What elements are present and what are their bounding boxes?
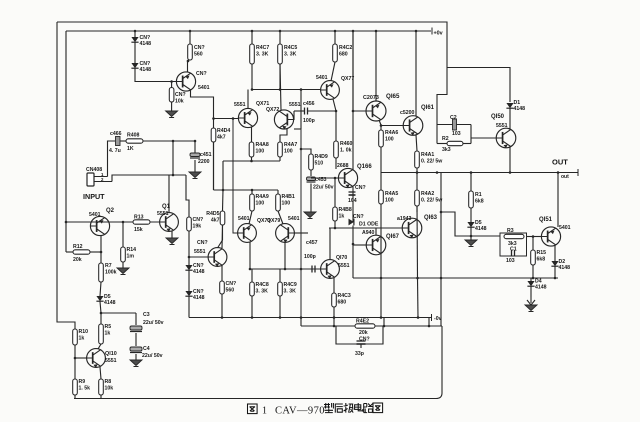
wire	[310, 184, 312, 213]
wire stub	[383, 318, 385, 327]
wire	[279, 64, 281, 90]
svg-text:100k: 100k	[105, 269, 117, 275]
wire	[333, 278, 335, 293]
svg-text:1k: 1k	[339, 213, 345, 219]
node	[251, 88, 254, 91]
wire	[188, 271, 190, 292]
resistor R14 1m	[121, 247, 136, 262]
node	[170, 80, 173, 83]
ground	[166, 111, 178, 118]
svg-text:CAV—970: CAV—970	[275, 406, 325, 417]
node	[440, 277, 443, 280]
svg-text:QX79: QX79	[267, 218, 280, 224]
wire QX71 base	[214, 118, 239, 120]
wire	[380, 278, 382, 318]
wire QX79 base stub	[295, 232, 309, 234]
capacitor 104	[349, 192, 356, 195]
node	[251, 316, 254, 319]
ground	[304, 212, 316, 219]
svg-text:3. 3K: 3. 3K	[256, 51, 269, 57]
resistor R4D4 4k7	[211, 128, 230, 142]
capacitor C4 22u/50v	[130, 347, 142, 353]
svg-text:-0v: -0v	[434, 316, 442, 322]
wire	[380, 147, 382, 173]
svg-text:103: 103	[506, 258, 515, 264]
transistor QI10 5551	[87, 349, 117, 368]
wire	[194, 160, 196, 172]
wire	[331, 62, 335, 81]
svg-text:+0v: +0v	[434, 31, 443, 37]
node	[383, 325, 386, 328]
resistor R8 10k	[99, 379, 114, 395]
resistor CN? 560	[220, 281, 236, 294]
node	[189, 30, 192, 33]
wire	[310, 170, 312, 176]
node	[333, 316, 336, 319]
wire	[251, 157, 253, 161]
wire	[66, 251, 73, 253]
wire R4D9 tap	[301, 149, 311, 154]
svg-text:100: 100	[284, 148, 293, 154]
diode CN? 4148 (2)	[131, 61, 151, 73]
svg-text:R4C2: R4C2	[339, 45, 352, 51]
svg-text:1k: 1k	[79, 335, 85, 341]
svg-text:A940: A940	[362, 230, 375, 236]
wire	[294, 128, 301, 130]
wire Q163 base bus	[329, 227, 403, 229]
node	[74, 357, 77, 360]
node	[279, 316, 282, 319]
node	[416, 277, 419, 280]
svg-text:QI70: QI70	[336, 255, 347, 261]
wire	[74, 395, 76, 399]
svg-text:5401: 5401	[288, 216, 300, 222]
svg-text:100p: 100p	[303, 118, 315, 124]
svg-text:10k: 10k	[105, 385, 114, 391]
svg-text:C2: C2	[450, 115, 457, 121]
wire	[251, 31, 253, 44]
wire	[379, 120, 381, 125]
wire	[100, 313, 102, 324]
wire	[221, 225, 224, 248]
svg-text:22u/ 50v: 22u/ 50v	[143, 320, 164, 326]
node	[300, 148, 303, 151]
svg-text:Q2: Q2	[106, 208, 115, 214]
svg-text:QI50: QI50	[491, 114, 505, 120]
node	[222, 189, 225, 192]
svg-text:QX77: QX77	[341, 76, 354, 82]
svg-text:100: 100	[385, 197, 394, 203]
wire	[470, 228, 472, 241]
svg-text:5401: 5401	[559, 225, 571, 231]
wire	[221, 266, 223, 282]
wire	[279, 31, 281, 44]
wire	[222, 161, 224, 190]
wire Q167 base	[353, 244, 367, 246]
wire Q1 collector	[168, 175, 170, 213]
svg-text:CN?: CN?	[353, 214, 364, 220]
node	[122, 221, 125, 224]
node	[416, 171, 419, 174]
svg-text:4148: 4148	[514, 106, 526, 112]
wire	[352, 187, 354, 222]
capacitor c451 2200	[190, 153, 200, 158]
node	[436, 171, 439, 174]
svg-text:c457: c457	[306, 240, 318, 246]
svg-text:D5: D5	[475, 220, 482, 226]
svg-text:R4A8: R4A8	[256, 142, 269, 148]
svg-text:R4D9: R4D9	[315, 154, 328, 160]
node	[300, 88, 303, 91]
svg-text:QI10: QI10	[105, 351, 117, 357]
svg-text:103: 103	[452, 131, 461, 137]
wire emitter bus y269	[250, 268, 321, 270]
diode CN? 4148 (4)	[185, 289, 204, 301]
svg-text:10k: 10k	[175, 98, 184, 104]
transistor QI51 5401	[539, 217, 571, 246]
capacitor C1 103	[512, 250, 515, 256]
svg-text:CN408: CN408	[86, 167, 102, 173]
svg-text:4k7: 4k7	[217, 134, 226, 140]
resistor R4D5 4k7	[206, 211, 225, 225]
node	[65, 221, 68, 224]
wire input to c466	[108, 141, 116, 177]
diode D5 4148	[467, 220, 486, 232]
wire	[530, 287, 532, 298]
wire mid bus y190	[214, 189, 279, 191]
wire	[171, 102, 173, 111]
transistor QX73 5401	[238, 216, 271, 242]
node	[251, 30, 254, 33]
wire	[221, 294, 223, 318]
wire	[360, 344, 362, 348]
ground arrow D4	[527, 297, 535, 305]
wire R3 node	[462, 235, 500, 237]
svg-text:OUT: OUT	[552, 158, 568, 167]
wire	[294, 110, 304, 112]
wire to c456	[300, 90, 302, 112]
svg-text:4148: 4148	[559, 265, 571, 271]
wire C2 branch	[437, 124, 471, 126]
svg-text:R4A2: R4A2	[421, 191, 434, 197]
svg-text:510: 510	[315, 160, 324, 166]
svg-text:4k7: 4k7	[211, 217, 220, 223]
svg-text:4148: 4148	[140, 41, 152, 47]
wire Q2 base bus	[66, 221, 160, 223]
wire stub	[333, 318, 335, 327]
svg-text:5401: 5401	[198, 85, 210, 91]
wire	[416, 135, 417, 151]
wire	[509, 109, 511, 129]
node	[100, 312, 103, 315]
wire	[188, 297, 190, 318]
wire Q165 base feed	[353, 31, 366, 111]
svg-text:CN?: CN?	[193, 289, 204, 295]
caption 图1 CAV-970 型后级电路图	[248, 404, 258, 414]
transistor Q1 5551	[157, 204, 178, 232]
svg-text:Q166: Q166	[357, 164, 372, 170]
node	[100, 251, 103, 254]
wire	[279, 296, 281, 318]
svg-text:100: 100	[282, 200, 291, 206]
wire	[189, 31, 191, 44]
wire	[375, 228, 377, 235]
node	[172, 140, 175, 143]
wire Q150 emitter to OUT	[509, 148, 511, 173]
node	[532, 277, 535, 280]
svg-text:22u/ 50v: 22u/ 50v	[313, 185, 334, 191]
resistor R4C7 3.3K	[250, 44, 270, 64]
transistor QI50 5551	[491, 114, 516, 148]
wire	[416, 168, 418, 173]
wire	[251, 269, 253, 282]
wire	[143, 140, 195, 142]
svg-text:R4A5: R4A5	[385, 191, 398, 197]
capacitor c453 22u/50v	[307, 177, 316, 182]
svg-text:5551: 5551	[194, 249, 206, 255]
svg-text:20k: 20k	[359, 330, 368, 336]
wire	[100, 282, 101, 296]
wire QX77 emitter	[333, 99, 336, 111]
svg-text:R4A9: R4A9	[256, 194, 269, 200]
wire	[172, 141, 174, 175]
svg-text:c466: c466	[110, 131, 122, 137]
wire diode chain to Q base	[135, 69, 176, 82]
wire	[300, 318, 302, 327]
transistor Q166 2688	[337, 163, 372, 188]
svg-text:1: 1	[262, 406, 267, 417]
wire	[470, 208, 472, 222]
node	[279, 30, 282, 33]
svg-text:5401: 5401	[316, 75, 328, 81]
node	[334, 30, 337, 33]
wire	[301, 268, 321, 270]
wire OUT rail	[381, 172, 578, 174]
transistor QX72 5551	[266, 102, 301, 130]
wire	[334, 221, 336, 228]
wire feedback loop box	[336, 326, 383, 344]
wire	[122, 222, 124, 247]
wire	[284, 242, 286, 269]
svg-text:D2: D2	[559, 259, 566, 265]
diode D2 4148	[551, 259, 570, 271]
resistor R4C3 680	[332, 293, 351, 307]
capacitor CN? 33p	[357, 341, 366, 344]
wire	[279, 269, 281, 282]
diode D5 4148 (left)	[96, 294, 115, 306]
resistor R13 15k	[133, 215, 150, 234]
node	[334, 227, 337, 230]
svg-text:QI67: QI67	[386, 234, 400, 240]
wire	[120, 140, 126, 142]
wire feedback to R3 node	[441, 212, 462, 236]
resistor R4E2 20k	[355, 319, 375, 329]
wire emitter bus	[223, 160, 280, 162]
resistor CN? 19k	[187, 217, 203, 231]
wire	[188, 231, 190, 265]
diode CN? DIODE	[349, 219, 354, 226]
wire	[470, 173, 472, 192]
svg-text:5551: 5551	[234, 102, 246, 108]
wire	[335, 158, 337, 169]
svg-text:1m: 1m	[127, 253, 135, 259]
svg-text:out: out	[561, 174, 569, 180]
wire	[251, 296, 253, 318]
wire	[171, 82, 173, 88]
wire	[554, 267, 556, 279]
svg-text:5551: 5551	[338, 263, 350, 269]
resistor CN? 10k	[169, 88, 185, 105]
wire	[530, 278, 532, 281]
capacitor c456 100p	[305, 108, 308, 115]
wire Q166 base	[311, 177, 339, 179]
svg-text:R4A6: R4A6	[385, 130, 398, 136]
resistor R408 1K	[126, 133, 143, 153]
node	[352, 30, 355, 33]
node	[352, 110, 355, 113]
svg-text:CN?: CN?	[140, 61, 151, 67]
svg-text:6k8: 6k8	[537, 256, 546, 262]
wire Q166 collector up	[352, 111, 354, 170]
node	[375, 30, 378, 33]
resistor R2 3k3	[442, 136, 463, 153]
svg-text:R4E2: R4E2	[356, 319, 369, 325]
wire	[554, 246, 556, 262]
wire	[100, 302, 101, 314]
svg-text:5401: 5401	[89, 212, 101, 218]
wire	[251, 127, 253, 142]
svg-text:R408: R408	[127, 133, 140, 139]
svg-text:CN?: CN?	[226, 281, 237, 287]
node	[470, 235, 473, 238]
transistor Q2 5401	[89, 208, 115, 236]
resistor CN? 560	[188, 44, 205, 60]
svg-text:R4C9: R4C9	[284, 282, 297, 288]
resistor R4A7 100	[278, 142, 298, 157]
wire QX72 collector	[280, 64, 281, 110]
node	[380, 124, 383, 127]
svg-text:R4A1: R4A1	[421, 152, 434, 158]
svg-text:4148: 4148	[193, 295, 205, 301]
svg-text:D5: D5	[104, 294, 111, 300]
svg-text:R10: R10	[79, 329, 89, 335]
wire Q161 collector	[415, 31, 417, 116]
svg-text:R7: R7	[105, 263, 112, 269]
wire +V to D1	[447, 68, 510, 103]
svg-text:19k: 19k	[193, 223, 202, 229]
svg-text:D4: D4	[535, 279, 542, 285]
wire	[463, 143, 471, 145]
wire	[380, 173, 382, 191]
wire long x301	[300, 129, 302, 318]
svg-text:C2073: C2073	[363, 95, 379, 101]
wire CN?5551 collector	[218, 225, 223, 248]
wire	[280, 129, 287, 143]
transistor CN? 5551	[194, 240, 227, 267]
svg-text:3k3: 3k3	[442, 147, 451, 153]
node out terminal tick	[577, 169, 579, 176]
node	[232, 117, 235, 120]
diode CN? 4148 (1)	[131, 35, 151, 47]
node	[509, 171, 512, 174]
wire	[300, 111, 302, 129]
node	[221, 316, 224, 319]
transistor QI61 c5200	[400, 105, 435, 136]
svg-text:20k: 20k	[73, 257, 82, 263]
svg-text:100: 100	[256, 200, 265, 206]
transistor QI67 A940	[362, 230, 400, 255]
connector CN408	[86, 167, 112, 186]
svg-text:4148: 4148	[104, 300, 116, 306]
transistor QX79 5401	[267, 216, 300, 243]
svg-text:QI63: QI63	[424, 215, 438, 221]
svg-text:4. 7u: 4. 7u	[109, 148, 121, 154]
diode D1 4148	[506, 100, 525, 112]
wire	[417, 278, 420, 318]
wire R4A5 to mid bus	[380, 204, 382, 278]
resistor R5 1k	[99, 324, 112, 344]
svg-text:R4D4: R4D4	[217, 128, 230, 134]
wire	[135, 354, 137, 360]
diode D4 4148	[527, 279, 546, 291]
svg-text:QI61: QI61	[421, 105, 435, 111]
wire	[100, 395, 102, 399]
resistor R4C2 680	[333, 44, 353, 62]
wire RC join	[470, 125, 472, 144]
svg-text:D1: D1	[514, 100, 521, 106]
svg-text:4148: 4148	[535, 285, 547, 291]
wire	[251, 190, 253, 194]
svg-text:C4: C4	[143, 346, 150, 352]
wire CN?5551 base	[189, 256, 208, 258]
transistor QX77 5401	[316, 75, 354, 99]
node	[440, 211, 443, 214]
wire Q2 emitter down	[100, 236, 102, 264]
resistor R4A8 100	[249, 142, 269, 157]
diode CN? 4148 (3)	[185, 263, 204, 275]
wire stub	[428, 318, 430, 327]
svg-text:100: 100	[256, 148, 265, 154]
ground	[166, 238, 178, 245]
wire	[334, 31, 336, 44]
node	[172, 174, 175, 177]
wire QI70 collector	[329, 228, 331, 260]
wire	[171, 231, 173, 238]
resistor R4B1 100	[276, 194, 295, 211]
svg-text:680: 680	[339, 51, 348, 57]
wire R4A2 through Q163	[416, 206, 419, 278]
svg-text:CN?: CN?	[193, 217, 204, 223]
node	[470, 171, 473, 174]
wire	[100, 367, 101, 379]
svg-text:680: 680	[338, 299, 347, 305]
transistor CN? 5401	[176, 71, 209, 91]
node	[352, 243, 355, 246]
wire to C3	[101, 312, 136, 314]
node	[212, 117, 215, 120]
wire	[532, 265, 534, 278]
svg-text:R4B1: R4B1	[282, 194, 295, 200]
svg-text:1K: 1K	[127, 146, 134, 152]
capacitor c457 100p	[312, 266, 315, 273]
resistor R3 3k3	[504, 228, 524, 239]
svg-text:C3: C3	[143, 312, 150, 318]
svg-text:3. 3K: 3. 3K	[284, 51, 297, 57]
svg-text:2688: 2688	[337, 163, 349, 169]
wire	[249, 211, 252, 224]
ground	[525, 305, 537, 312]
svg-text:R15: R15	[537, 250, 547, 256]
